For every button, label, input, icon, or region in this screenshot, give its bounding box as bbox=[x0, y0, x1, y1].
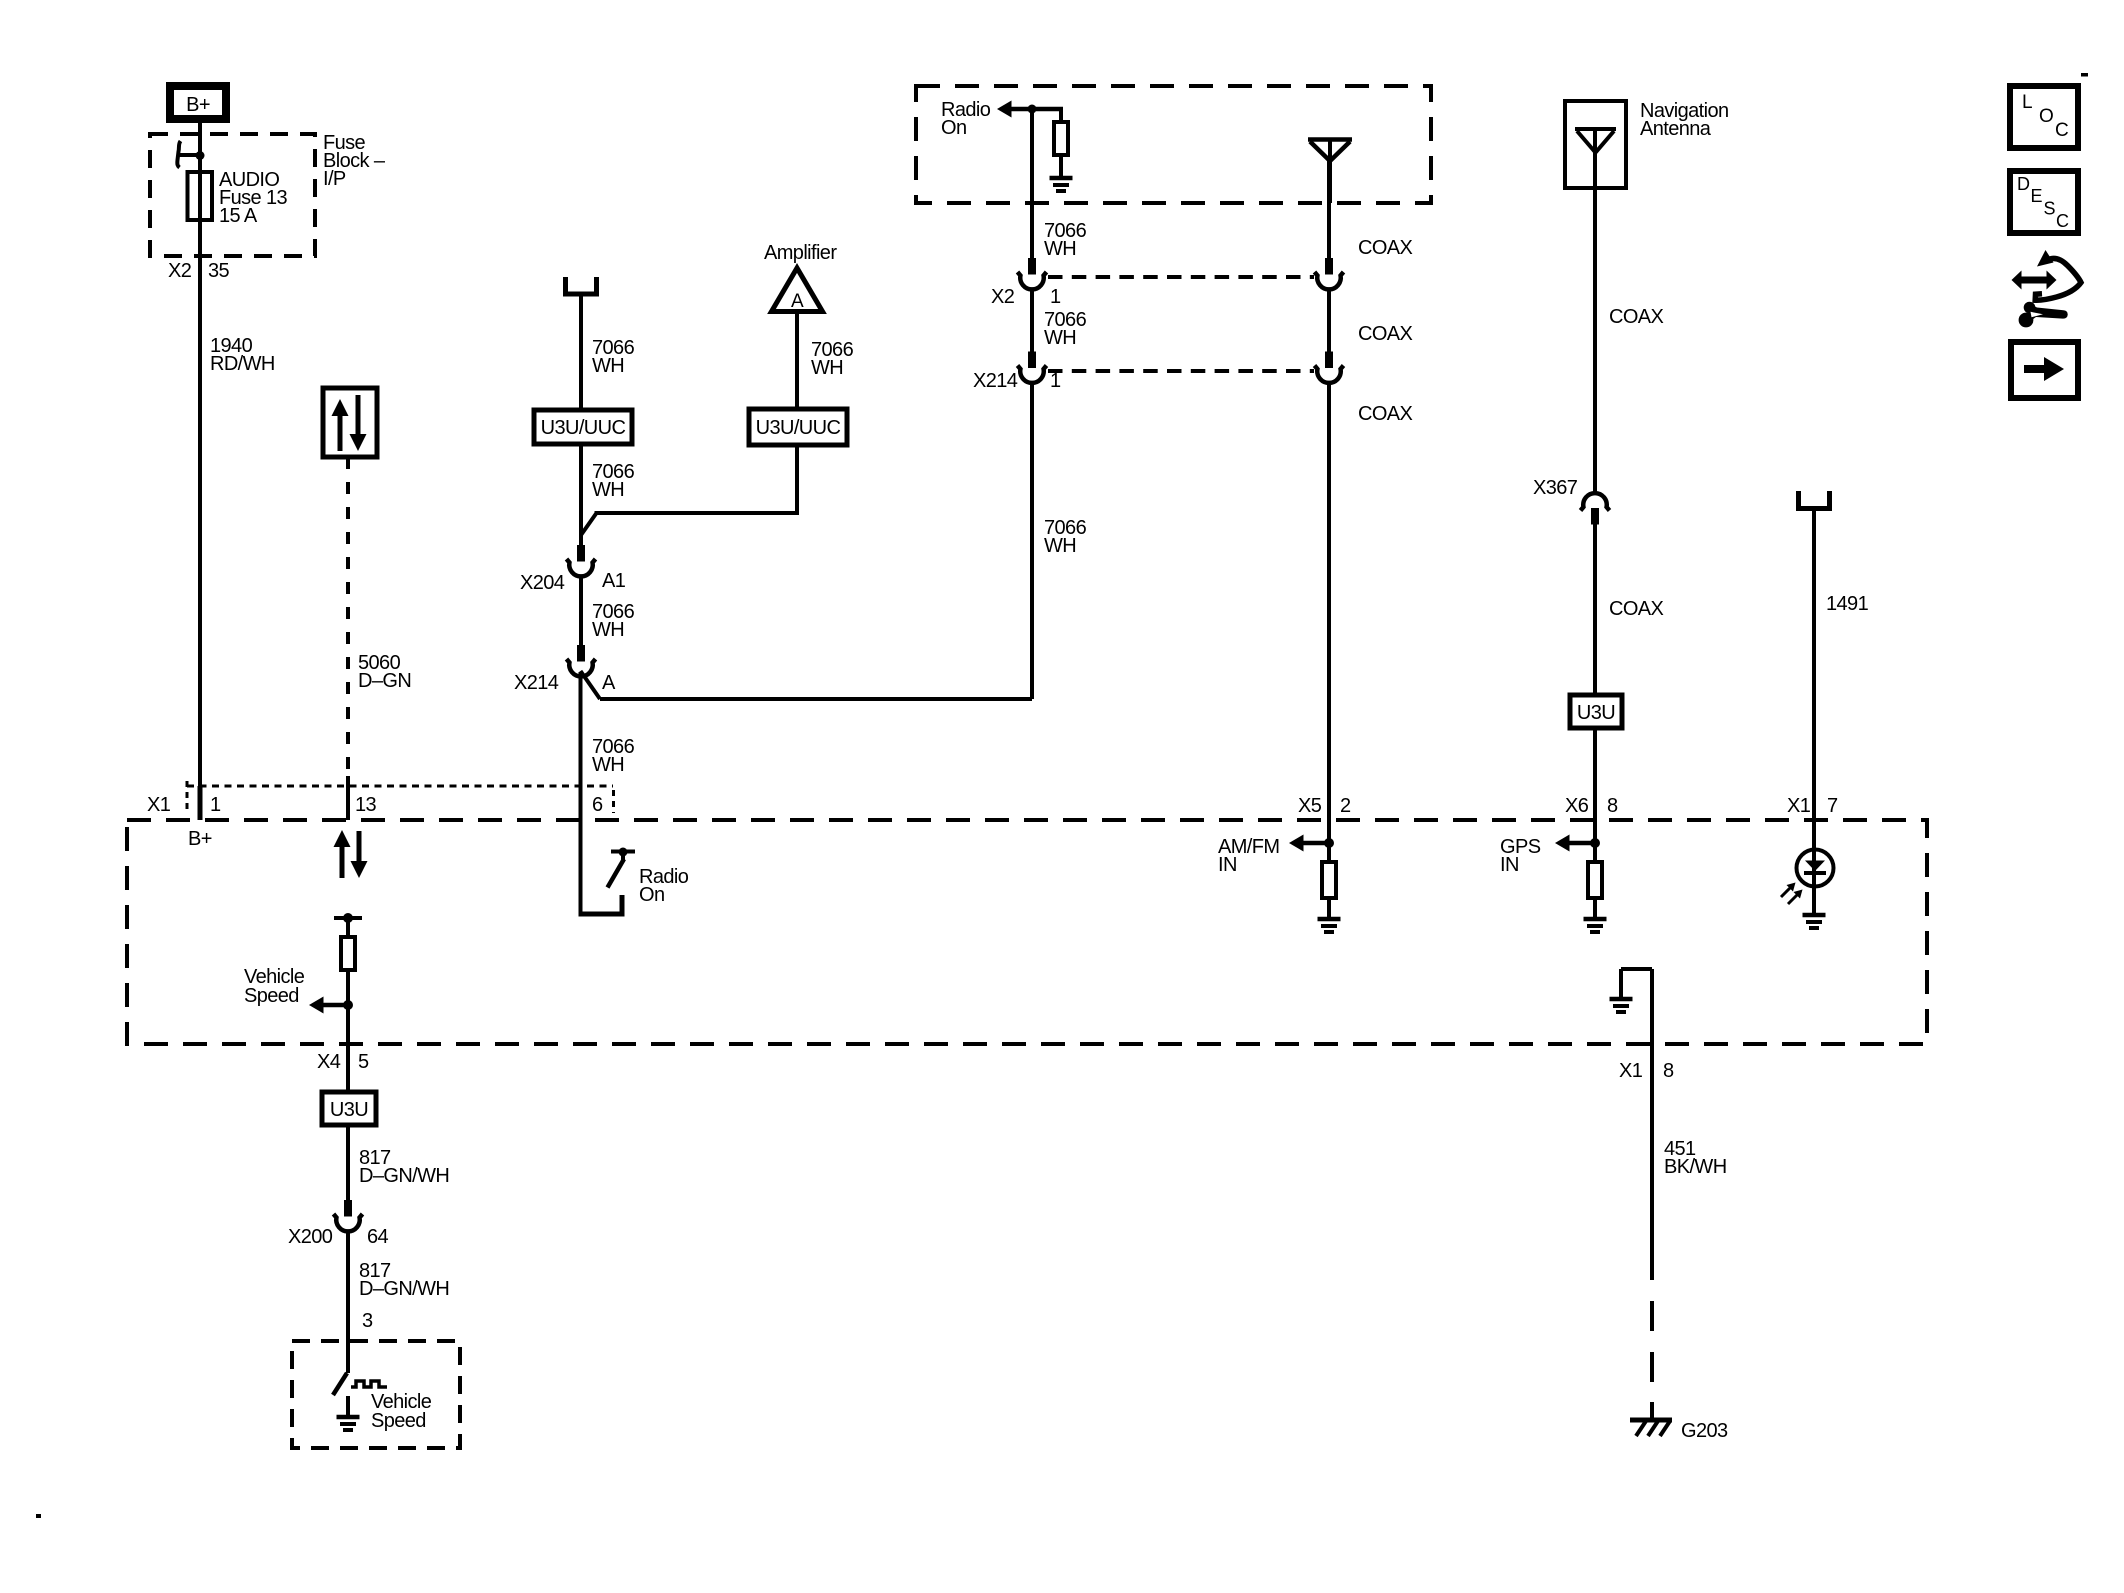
fuse block dashed outline Fuse Block - I/P bbox=[150, 134, 315, 256]
svg-text:WH: WH bbox=[592, 355, 624, 377]
wire: COAX X2 to X214 bbox=[1327, 288, 1331, 352]
svg-text:8: 8 bbox=[1607, 795, 1618, 817]
svg-text:U3U/UUC: U3U/UUC bbox=[756, 417, 841, 439]
option box U3U/UUC (antenna module) bbox=[534, 410, 632, 444]
svg-text:COAX: COAX bbox=[1358, 237, 1413, 259]
svg-text:X4: X4 bbox=[317, 1051, 341, 1073]
wire: 7066 WH amplifier to U3U/UUC box bbox=[795, 312, 799, 410]
svg-text:WH: WH bbox=[592, 619, 624, 641]
svg-text:IN: IN bbox=[1500, 854, 1519, 876]
svg-text:X200: X200 bbox=[288, 1226, 333, 1248]
wire: 7066 WH bypass down and left to X214-A node bbox=[600, 382, 1032, 700]
connector X204 pin A1 bbox=[567, 545, 596, 576]
label: Vehicle Speed (sensor) bbox=[371, 1391, 432, 1432]
svg-text:WH: WH bbox=[1044, 238, 1076, 260]
vehicle speed pulse waveform symbol bbox=[351, 1381, 387, 1387]
radio connector X1 face (dotted line) bbox=[187, 781, 614, 813]
wire: circuit 451 BK/WH to ground bbox=[1650, 1044, 1654, 1420]
label: Navigation Antenna bbox=[1640, 100, 1729, 140]
navigation antenna box bbox=[1565, 101, 1626, 188]
svg-text:13: 13 bbox=[355, 794, 377, 816]
svg-text:X2: X2 bbox=[991, 286, 1015, 308]
connector X367 bbox=[1581, 493, 1610, 524]
vehicle speed sensor switch blade bbox=[333, 1373, 347, 1395]
svg-text:X1: X1 bbox=[147, 794, 171, 816]
label: X200 pin 64 bbox=[288, 1226, 389, 1248]
label: circuit 7066 WH (stub segment) bbox=[592, 337, 635, 377]
wire: amplifier branch down to tap line bbox=[795, 445, 799, 515]
GPS IN arrow and junction bbox=[1555, 835, 1600, 852]
svg-text:Amplifier: Amplifier bbox=[764, 242, 837, 264]
label: X1 pin 7 bbox=[1787, 795, 1838, 817]
svg-text:U3U: U3U bbox=[1577, 702, 1615, 724]
label: circuit 1491 bbox=[1826, 593, 1869, 615]
svg-text:Speed: Speed bbox=[371, 1410, 426, 1432]
svg-text:U3U: U3U bbox=[330, 1099, 368, 1121]
wire: amplifier tap horizontal line bbox=[595, 511, 798, 515]
svg-text:X1: X1 bbox=[1619, 1060, 1643, 1082]
svg-text:On: On bbox=[941, 117, 966, 139]
label: X204 pin A1 bbox=[520, 570, 626, 594]
broadcast antenna symbol bbox=[1308, 140, 1352, 204]
svg-text:G203: G203 bbox=[1681, 1420, 1728, 1442]
label: circuit 7066 WH (X2-X214) bbox=[1044, 309, 1087, 349]
label: circuit 7066 WH (source-X2) bbox=[1044, 220, 1087, 260]
stray mark top right bbox=[2081, 73, 2088, 77]
wire: COAX nav antenna to X367 bbox=[1593, 129, 1597, 495]
svg-text:C: C bbox=[2056, 211, 2069, 231]
svg-text:C: C bbox=[2055, 120, 2068, 141]
label: X367 bbox=[1533, 477, 1578, 499]
svg-text:X5: X5 bbox=[1298, 795, 1322, 817]
label: AM/FM IN bbox=[1218, 836, 1279, 876]
label: B+ input inside radio bbox=[188, 828, 212, 850]
svg-text:1: 1 bbox=[1050, 370, 1061, 392]
svg-text:D–GN/WH: D–GN/WH bbox=[359, 1165, 449, 1187]
label: circuit 1940 RD/WH bbox=[210, 335, 275, 375]
svg-text:Antenna: Antenna bbox=[1640, 118, 1712, 140]
svg-text:D–GN/WH: D–GN/WH bbox=[359, 1278, 449, 1300]
wire: circuit 1491 to radio X1-7 bbox=[1812, 509, 1816, 851]
label: X1 connector, pin 1 bbox=[147, 794, 221, 816]
label: connector X2 pin 35 (fuse block output) bbox=[168, 260, 230, 282]
svg-text:COAX: COAX bbox=[1609, 306, 1664, 328]
svg-text:B+: B+ bbox=[188, 828, 212, 850]
wire: COAX U3U box to radio X6-8 bbox=[1593, 728, 1597, 862]
fuse block bus bar tap with junction bbox=[177, 141, 205, 168]
svg-text:5: 5 bbox=[358, 1051, 369, 1073]
wire: 7066 WH from stub to U3U/UUC box bbox=[579, 294, 583, 410]
wire: 7066 WH source to X2 bbox=[1030, 109, 1034, 260]
label: X1 pin 6 bbox=[592, 794, 603, 816]
svg-text:IN: IN bbox=[1218, 854, 1237, 876]
svg-text:X204: X204 bbox=[520, 572, 565, 594]
label: COAX (antenna-X2) bbox=[1358, 237, 1413, 259]
label: circuit 5060 D-GN bbox=[358, 652, 411, 692]
radio on switch (pivot, blade) bbox=[608, 848, 636, 888]
vehicle speed signal arrow and junction bbox=[309, 997, 353, 1014]
label: circuit 7066 WH (below box) bbox=[592, 461, 635, 501]
wire: pin 6 into radio and switch bracket bbox=[579, 672, 623, 914]
wire: X4-5 to U3U option box bbox=[346, 1044, 350, 1092]
option box U3U (navigation) bbox=[1570, 695, 1622, 728]
svg-text:X6: X6 bbox=[1565, 795, 1589, 817]
label: vehicle speed sensor pin 3 bbox=[362, 1310, 373, 1332]
svg-text:S: S bbox=[2044, 199, 2056, 219]
wire: serial data circuit 5060 (dashed class-2 wire) bbox=[346, 457, 350, 820]
svg-text:64: 64 bbox=[367, 1226, 389, 1248]
label: circuit 817 D-GN/WH (upper) bbox=[359, 1147, 449, 1187]
svg-text:BK/WH: BK/WH bbox=[1664, 1156, 1727, 1178]
label: circuit 817 D-GN/WH (lower) bbox=[359, 1260, 449, 1300]
photodiode (ambient light dimming) in radio bbox=[1781, 850, 1834, 914]
svg-text:WH: WH bbox=[1044, 327, 1076, 349]
broadcast source dashed outline bbox=[916, 86, 1431, 203]
wire: circuit 817 upper segment bbox=[346, 1125, 350, 1200]
wire: COAX X367 to U3U box bbox=[1593, 525, 1597, 696]
svg-text:Speed: Speed bbox=[244, 985, 299, 1007]
label: Vehicle Speed (inside radio) bbox=[244, 966, 305, 1007]
radio on source arrow with junction bbox=[997, 101, 1063, 118]
stray mark bottom left bbox=[36, 1514, 41, 1518]
radio AM/FM input ground bbox=[1318, 919, 1341, 932]
source ground bbox=[1050, 178, 1073, 191]
radio internal ground (to X1-8) bbox=[1610, 969, 1653, 1044]
svg-text:E: E bbox=[2031, 186, 2043, 206]
wire: B+ to fuse block, circuit 1940 bbox=[198, 123, 202, 786]
wire: COAX antenna to X2 bbox=[1327, 161, 1331, 260]
label: X2 pin 1 bbox=[991, 286, 1061, 308]
fuse AUDIO Fuse 13 15 A bbox=[188, 172, 213, 220]
label: circuit 7066 WH (amplifier) bbox=[811, 339, 854, 379]
svg-text:On: On bbox=[639, 884, 664, 906]
label: COAX (nav lower) bbox=[1609, 598, 1664, 620]
svg-text:1491: 1491 bbox=[1826, 593, 1869, 615]
label: circuit 7066 WH (to radio pin 6) bbox=[592, 736, 635, 776]
AM/FM IN arrow and junction bbox=[1289, 835, 1334, 852]
label: Radio On (switch) bbox=[639, 866, 689, 906]
wire junction: X214-A node to bypass line bbox=[581, 671, 601, 699]
connector X214 face dashed line bbox=[1048, 369, 1314, 373]
svg-text:8: 8 bbox=[1663, 1060, 1674, 1082]
label: X5 pin 2 bbox=[1298, 795, 1351, 817]
svg-text:1: 1 bbox=[1050, 286, 1061, 308]
connector X2 face dashed line bbox=[1048, 275, 1314, 279]
label: G203 bbox=[1681, 1420, 1728, 1442]
connector X214 pin A bbox=[567, 645, 596, 676]
legend icon DESC bbox=[2010, 171, 2078, 233]
svg-text:O: O bbox=[2039, 106, 2053, 127]
svg-text:X1: X1 bbox=[1787, 795, 1811, 817]
svg-text:WH: WH bbox=[811, 357, 843, 379]
svg-text:WH: WH bbox=[592, 479, 624, 501]
chassis ground G203 bbox=[1630, 1420, 1672, 1436]
svg-text:35: 35 bbox=[208, 260, 230, 282]
svg-text:D: D bbox=[2017, 174, 2030, 194]
label: X4 pin 5 bbox=[317, 1051, 369, 1073]
legend icon LOC bbox=[2010, 86, 2078, 148]
connector X2 pin 1 (left) bbox=[1018, 258, 1047, 289]
label: X6 pin 8 bbox=[1565, 795, 1618, 817]
radio GPS input resistor bbox=[1588, 862, 1602, 917]
svg-text:X367: X367 bbox=[1533, 477, 1578, 499]
svg-text:WH: WH bbox=[1044, 535, 1076, 557]
label: circuit 451 BK/WH bbox=[1664, 1138, 1727, 1178]
wire stub: antenna lead-in connector (top) bbox=[566, 277, 597, 294]
svg-text:X214: X214 bbox=[973, 370, 1018, 392]
svg-text:7: 7 bbox=[1827, 795, 1838, 817]
label: X1 pin 13 bbox=[355, 794, 377, 816]
radio module dashed outline bbox=[127, 820, 1927, 1044]
internal resistor (vehicle speed input) bbox=[341, 918, 355, 1044]
legend icon continue arrow bbox=[2011, 342, 2078, 398]
svg-text:WH: WH bbox=[592, 754, 624, 776]
wire stub: circuit 1491 source bbox=[1799, 491, 1830, 509]
label: circuit 7066 WH (X204-X214) bbox=[592, 601, 635, 641]
radio AM/FM input resistor bbox=[1322, 862, 1336, 917]
navigation antenna symbol bbox=[1575, 129, 1616, 153]
label: X214 pin A bbox=[514, 672, 616, 694]
photodiode ground bbox=[1803, 915, 1826, 928]
label: COAX (nav upper) bbox=[1609, 306, 1664, 328]
svg-text:COAX: COAX bbox=[1609, 598, 1664, 620]
svg-text:U3U/UUC: U3U/UUC bbox=[541, 417, 626, 439]
power feed B+ terminal box bbox=[170, 86, 226, 119]
svg-text:B+: B+ bbox=[186, 94, 210, 116]
vehicle speed sensor dashed outline bbox=[292, 1341, 460, 1448]
label: Radio On (source) bbox=[941, 99, 991, 139]
data link connector symbol box (up/down arrows) bbox=[323, 388, 377, 457]
svg-text:D–GN: D–GN bbox=[358, 670, 411, 692]
option box U3U/UUC (amplifier) bbox=[749, 409, 847, 445]
svg-text:COAX: COAX bbox=[1358, 403, 1413, 425]
label: Amplifier bbox=[764, 242, 837, 264]
connector X214 pin 1 (left) bbox=[1018, 352, 1047, 383]
connector X214 pin (coax) bbox=[1315, 352, 1344, 383]
label: COAX (X2-X214) bbox=[1358, 323, 1413, 345]
svg-text:X2: X2 bbox=[168, 260, 192, 282]
svg-text:3: 3 bbox=[362, 1310, 373, 1332]
vehicle speed sensor ground bbox=[337, 1396, 360, 1430]
wire: 7066 WH below U3U/UUC with amplifier tap bbox=[581, 444, 597, 546]
legend icon wiring tools (double arrow, curved arrow, wrench) bbox=[2012, 250, 2082, 327]
serial data in/out arrows inside radio bbox=[334, 830, 368, 878]
svg-text:6: 6 bbox=[592, 794, 603, 816]
wire: 7066 WH X2 to X214 bbox=[1030, 288, 1034, 352]
svg-text:2: 2 bbox=[1340, 795, 1351, 817]
wire: COAX X214 to radio X5-2 bbox=[1327, 382, 1331, 863]
label: COAX (to radio) bbox=[1358, 403, 1413, 425]
svg-text:1: 1 bbox=[210, 794, 221, 816]
svg-text:15 A: 15 A bbox=[219, 205, 258, 227]
label: AUDIO Fuse 13 15 A bbox=[219, 169, 288, 227]
label: X214 pin 1 bbox=[973, 370, 1061, 392]
svg-text:RD/WH: RD/WH bbox=[210, 353, 275, 375]
svg-text:A: A bbox=[602, 672, 616, 694]
label: Fuse Block - I/P bbox=[323, 132, 386, 190]
source resistor to ground bbox=[1054, 109, 1068, 177]
label: GPS IN bbox=[1500, 836, 1541, 876]
label: X1 pin 8 bbox=[1619, 1060, 1674, 1082]
wire: 7066 WH X204 to X214 bbox=[579, 575, 583, 646]
svg-text:A: A bbox=[791, 291, 804, 312]
connector X2 pin (coax) bbox=[1315, 258, 1344, 289]
wire: circuit 817 lower segment bbox=[346, 1230, 350, 1373]
label: circuit 7066 WH (bypass) bbox=[1044, 517, 1087, 557]
svg-text:L: L bbox=[2022, 92, 2032, 113]
svg-text:A1: A1 bbox=[602, 570, 626, 592]
amplifier symbol A (triangle) bbox=[772, 268, 823, 312]
internal pull-up terminal bar with junction bbox=[334, 913, 362, 923]
pin 1 wire stub into radio bbox=[198, 786, 203, 820]
radio GPS input ground bbox=[1584, 919, 1607, 932]
svg-text:X214: X214 bbox=[514, 672, 559, 694]
svg-text:I/P: I/P bbox=[323, 168, 346, 190]
connector X200 pin 64 bbox=[334, 1200, 363, 1231]
option box U3U (vehicle speed) bbox=[322, 1092, 376, 1125]
svg-text:COAX: COAX bbox=[1358, 323, 1413, 345]
